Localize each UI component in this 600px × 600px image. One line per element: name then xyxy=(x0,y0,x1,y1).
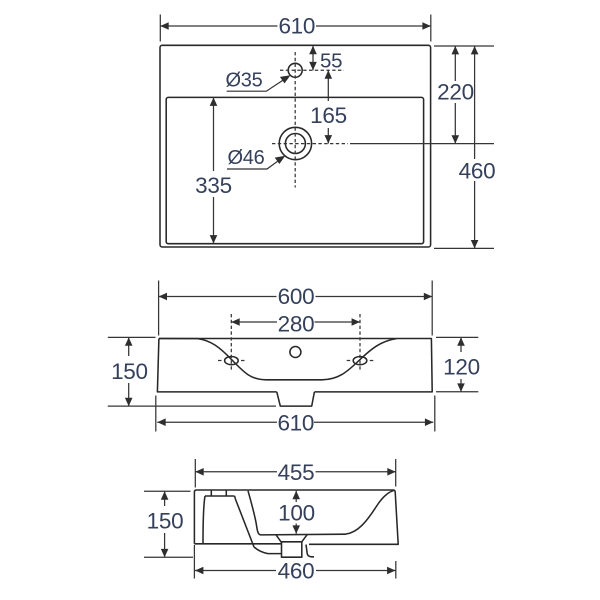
centerline horizontal through drain (top view) xyxy=(272,143,348,145)
svg-text:165: 165 xyxy=(310,103,347,128)
svg-text:Ø46: Ø46 xyxy=(228,147,265,169)
drain recess (side view) xyxy=(276,534,307,541)
dimension 455 (side top width) xyxy=(195,471,395,473)
dimension 120 (right height) xyxy=(460,337,462,391)
bowl silhouette curve (front view) xyxy=(159,339,397,380)
svg-text:120: 120 xyxy=(443,354,480,379)
trap (front view) xyxy=(277,392,315,406)
dimension 150 (side height) xyxy=(164,491,166,557)
dimension 100 (bowl depth) xyxy=(295,491,297,534)
faucet hole walls (side view) xyxy=(211,490,226,496)
dimension 165 (faucet to drain) xyxy=(327,70,329,143)
tap deck tower left edge xyxy=(203,496,205,544)
faucet hole Ø35 (top view) xyxy=(288,63,302,77)
svg-text:150: 150 xyxy=(147,508,184,533)
tap deck tower right slant xyxy=(235,499,254,548)
centerline horizontal through faucet (top view) xyxy=(280,69,344,71)
bowl bottom line (side view) xyxy=(261,533,346,536)
svg-text:455: 455 xyxy=(278,460,315,485)
drain pipe (side view) xyxy=(282,542,302,557)
extension line left of dim 600 xyxy=(158,281,160,336)
dimension 610 (front bottom width) xyxy=(157,421,433,423)
drain hole Ø46 outer recess (top view) xyxy=(279,127,311,159)
svg-text:280: 280 xyxy=(278,312,315,337)
tap deck tower top xyxy=(205,496,235,499)
basin outer rim (top view) xyxy=(160,45,431,247)
overflow hole (front view) xyxy=(290,347,301,358)
svg-text:610: 610 xyxy=(278,13,315,38)
dashed extension lines for dim 280 xyxy=(230,314,232,371)
extension line right of dim 600 xyxy=(431,281,433,336)
dimension 280 (fixing holes span) xyxy=(231,321,360,323)
svg-text:Ø35: Ø35 xyxy=(226,70,263,92)
extension line bottom-right y248.4 xyxy=(434,247,494,249)
extension lines for dim 150 (side) xyxy=(144,491,193,557)
svg-text:335: 335 xyxy=(195,173,232,198)
extension lines for dim 120 xyxy=(436,337,478,391)
side profile outer shell xyxy=(194,490,398,544)
dimension 600 (front top width) xyxy=(159,296,433,298)
bowl interior front S-curve xyxy=(346,490,394,534)
pedestal bottom line (left) xyxy=(194,543,281,545)
centerline vertical through faucet/drain (top view) xyxy=(294,52,296,188)
left fixing hole (front view) xyxy=(225,357,239,365)
dimension 460 (side bottom width) xyxy=(195,570,396,572)
svg-text:55: 55 xyxy=(320,50,342,73)
svg-text:610: 610 xyxy=(277,410,314,435)
svg-text:220: 220 xyxy=(437,80,474,105)
dimension 55 (faucet offset) xyxy=(312,46,314,71)
right fixing hole (front view) xyxy=(353,357,367,365)
svg-text:150: 150 xyxy=(111,359,148,384)
drain pipe right foot xyxy=(306,545,314,557)
dimension 220 (top to drain) xyxy=(454,46,456,144)
extension lines for dim 150 (front) xyxy=(108,337,276,406)
extension line left of dim 610 top xyxy=(159,15,161,42)
svg-text:460: 460 xyxy=(459,158,496,183)
svg-text:600: 600 xyxy=(278,284,315,309)
extension line drain centerline to right dims xyxy=(350,143,494,145)
extension lines for dim 455 xyxy=(195,459,395,488)
dimension 150 (front height) xyxy=(128,337,130,406)
apron curve below bowl xyxy=(254,547,282,554)
extension line top-right y46 xyxy=(434,45,494,47)
basin body outline (front view) xyxy=(157,339,432,392)
svg-text:460: 460 xyxy=(278,559,315,584)
extension lines for dim 460 xyxy=(194,545,395,579)
dimension 610 (top view width) xyxy=(160,25,431,27)
bowl interior back wall xyxy=(248,491,261,535)
dimension 460 (top view depth) xyxy=(474,46,476,248)
extension lines for dim 610 bottom xyxy=(156,396,435,432)
center marks on fixing holes xyxy=(218,360,245,362)
basin inner bowl edge (top view) xyxy=(166,97,423,243)
extension line right of dim 610 top xyxy=(430,15,432,42)
svg-text:100: 100 xyxy=(278,500,315,525)
drain hole Ø46 (top view) xyxy=(285,134,305,154)
dimension 335 (drain from bottom... vertical inner) xyxy=(213,98,215,244)
